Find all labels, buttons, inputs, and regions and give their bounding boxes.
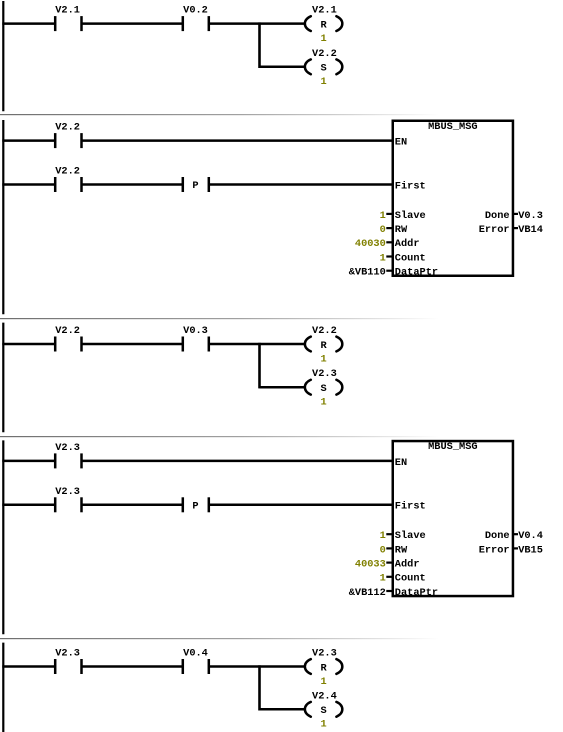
svg-text:V2.2: V2.2 <box>55 325 80 337</box>
svg-text:S: S <box>321 705 327 717</box>
svg-text:EN: EN <box>395 137 407 149</box>
svg-text:Addr: Addr <box>395 559 420 571</box>
function block U4 MBUS_MSG <box>393 441 513 596</box>
svg-text:1: 1 <box>321 719 327 731</box>
wire branch to S coil <box>260 708 306 711</box>
coil V2.3 (R) <box>305 648 342 688</box>
svg-text:V2.1: V2.1 <box>312 5 337 17</box>
contact V2.1 (network 1) <box>55 5 81 32</box>
svg-text:Done: Done <box>485 210 510 222</box>
output V0.3 wired from Done <box>513 210 543 222</box>
svg-text:RW: RW <box>395 544 408 556</box>
svg-text:&VB112: &VB112 <box>349 587 386 599</box>
svg-text:MBUS_MSG: MBUS_MSG <box>428 121 477 133</box>
svg-text:Count: Count <box>395 252 426 264</box>
coil V2.3 (S) <box>305 368 342 408</box>
svg-text:First: First <box>395 501 426 513</box>
wire contact to R coil <box>209 22 306 25</box>
wire rail to first contact <box>2 22 55 25</box>
svg-text:First: First <box>395 180 426 192</box>
svg-text:V2.3: V2.3 <box>55 486 80 498</box>
wire contact to P contact <box>82 504 183 507</box>
network separator line 4 <box>0 638 563 639</box>
left power rail network 3 <box>2 323 4 433</box>
svg-text:RW: RW <box>395 224 408 236</box>
svg-text:MBUS_MSG: MBUS_MSG <box>428 441 477 453</box>
branch junction wire <box>258 343 261 389</box>
svg-text:V0.3: V0.3 <box>518 210 543 222</box>
svg-text:V0.2: V0.2 <box>183 5 208 17</box>
svg-text:1: 1 <box>380 573 386 585</box>
wire rail to EN contact <box>2 139 55 142</box>
svg-text:1: 1 <box>380 210 386 222</box>
svg-text:EN: EN <box>395 457 407 469</box>
svg-text:Slave: Slave <box>395 210 426 222</box>
svg-text:40033: 40033 <box>355 559 386 571</box>
contact V0.3 (network 3) <box>183 325 209 352</box>
wire rail to First contact <box>2 504 55 507</box>
wire between contacts <box>82 343 183 346</box>
wire branch to S coil <box>260 66 306 69</box>
svg-text:S: S <box>321 63 327 75</box>
output VB14 wired from Error <box>513 224 543 236</box>
svg-text:P: P <box>192 500 198 512</box>
output V0.4 wired from Done <box>513 530 543 542</box>
svg-text:V2.3: V2.3 <box>55 442 80 454</box>
branch junction wire <box>258 665 261 710</box>
svg-text:R: R <box>321 662 328 674</box>
coil V2.2 (S) <box>305 48 342 88</box>
svg-text:Count: Count <box>395 573 426 585</box>
svg-text:DataPtr: DataPtr <box>395 587 438 599</box>
wire contact to EN input <box>82 460 393 463</box>
value 1 wired to Count <box>380 573 392 585</box>
left power rail network 4 <box>2 440 4 634</box>
svg-text:VB14: VB14 <box>518 224 543 236</box>
svg-text:&VB110: &VB110 <box>349 267 386 279</box>
svg-text:1: 1 <box>321 76 327 88</box>
wire contact to P contact <box>82 183 183 186</box>
left power rail network 5 <box>2 643 4 732</box>
contact V2.2 EN rung (network 2) <box>55 122 81 149</box>
wire rail to First contact <box>2 183 55 186</box>
contact V2.2 (network 3) <box>55 325 81 352</box>
function block U2 MBUS_MSG <box>393 121 513 276</box>
left power rail network 1 <box>2 1 4 111</box>
branch junction wire <box>258 22 261 68</box>
svg-text:R: R <box>321 340 328 352</box>
contact V0.2 (network 1) <box>183 5 209 32</box>
value 1 wired to Slave <box>380 210 392 222</box>
wire contact to R coil <box>209 343 306 346</box>
coil V2.1 (R) <box>305 5 342 45</box>
svg-text:V0.3: V0.3 <box>183 325 208 337</box>
svg-text:Slave: Slave <box>395 530 426 542</box>
value 1 wired to Slave <box>380 530 392 542</box>
svg-text:1: 1 <box>321 397 327 409</box>
svg-text:DataPtr: DataPtr <box>395 267 438 279</box>
contact P (positive transition) <box>183 177 209 192</box>
svg-text:1: 1 <box>321 676 327 688</box>
svg-text:1: 1 <box>380 530 386 542</box>
wire rail to first contact <box>2 665 55 668</box>
svg-text:1: 1 <box>380 252 386 264</box>
svg-text:1: 1 <box>321 353 327 365</box>
wire contact to EN input <box>82 139 393 142</box>
wire between contacts <box>82 22 183 25</box>
svg-text:1: 1 <box>321 33 327 45</box>
svg-text:V2.3: V2.3 <box>55 648 80 660</box>
value 40033 wired to Addr <box>355 559 392 571</box>
network separator line 2 <box>0 318 563 319</box>
contact V2.3 EN rung (network 4) <box>55 442 81 469</box>
wire rail to first contact <box>2 343 55 346</box>
svg-text:V2.3: V2.3 <box>312 368 337 380</box>
svg-text:V0.4: V0.4 <box>183 648 208 660</box>
value 1 wired to Count <box>380 252 392 264</box>
value 0 wired to RW <box>380 224 392 236</box>
svg-text:V2.2: V2.2 <box>312 325 337 337</box>
svg-text:R: R <box>321 19 328 31</box>
svg-text:V2.1: V2.1 <box>55 5 80 17</box>
svg-text:VB15: VB15 <box>518 544 543 556</box>
left power rail network 2 <box>2 120 4 314</box>
contact V2.3 (network 5) <box>55 648 81 675</box>
coil V2.4 (S) <box>305 690 342 730</box>
svg-text:V2.4: V2.4 <box>312 690 337 702</box>
value &VB112 wired to DataPtr <box>349 587 392 599</box>
output VB15 wired from Error <box>513 544 543 556</box>
svg-text:V2.2: V2.2 <box>55 166 80 178</box>
svg-text:0: 0 <box>380 224 386 236</box>
svg-text:Addr: Addr <box>395 238 420 250</box>
network separator line 1 <box>0 114 563 115</box>
svg-text:V2.2: V2.2 <box>312 48 337 60</box>
svg-text:V2.2: V2.2 <box>55 122 80 134</box>
network separator line 3 <box>0 436 563 437</box>
wire contact to R coil <box>209 665 306 668</box>
contact P (positive transition) <box>183 497 209 512</box>
svg-text:40030: 40030 <box>355 238 386 250</box>
svg-text:V0.4: V0.4 <box>518 530 543 542</box>
svg-text:Error: Error <box>479 224 510 236</box>
wire rail to EN contact <box>2 460 55 463</box>
svg-text:0: 0 <box>380 544 386 556</box>
wire P contact to First input <box>209 504 393 507</box>
value 0 wired to RW <box>380 544 392 556</box>
svg-text:V2.3: V2.3 <box>312 648 337 660</box>
svg-text:Error: Error <box>479 544 510 556</box>
coil V2.2 (R) <box>305 325 342 365</box>
svg-text:S: S <box>321 383 327 395</box>
value &VB110 wired to DataPtr <box>349 267 392 279</box>
wire branch to S coil <box>260 386 306 389</box>
wire P contact to First input <box>209 183 393 186</box>
value 40030 wired to Addr <box>355 238 392 250</box>
contact V2.3 First rung (network 4) <box>55 486 81 513</box>
contact V0.4 (network 5) <box>183 648 209 675</box>
wire between contacts <box>82 665 183 668</box>
svg-text:P: P <box>192 180 198 192</box>
svg-text:Done: Done <box>485 530 510 542</box>
contact V2.2 First rung (network 2) <box>55 166 81 193</box>
